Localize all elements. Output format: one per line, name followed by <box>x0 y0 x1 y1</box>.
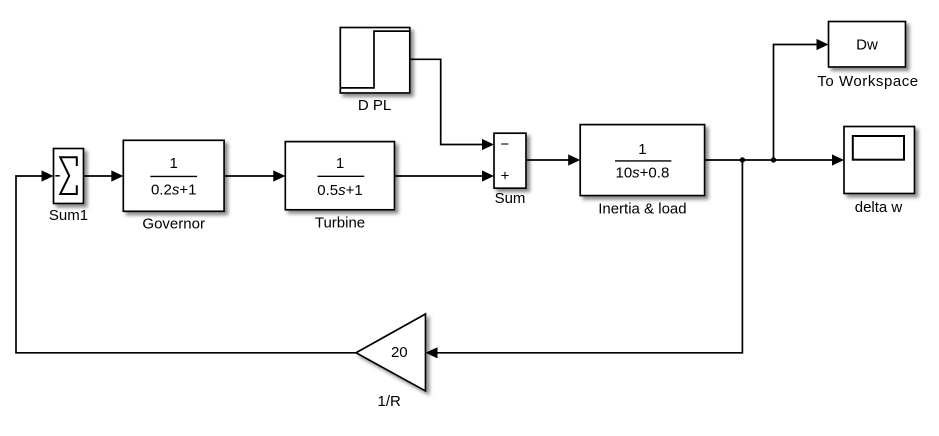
svg-text:Dw: Dw <box>856 37 878 54</box>
fraction bar <box>615 160 671 162</box>
arrowhead into Turbine <box>273 170 285 181</box>
wire branch down to gain input <box>437 160 743 353</box>
arrowhead into Governor <box>111 170 123 181</box>
svg-text:delta w: delta w <box>855 199 903 216</box>
junction node at workspace branch <box>771 157 776 162</box>
svg-text:20: 20 <box>391 344 408 361</box>
svg-text:0.5s+1: 0.5s+1 <box>317 182 362 199</box>
wire branch up to To Workspace <box>774 45 818 161</box>
svg-text:+: + <box>501 168 510 185</box>
wire D PL to Sum minus input <box>410 59 483 144</box>
gain triangle 1/R <box>356 314 426 410</box>
wire Governor to Turbine <box>224 175 274 177</box>
svg-text:To Workspace: To Workspace <box>817 73 918 90</box>
svg-text:1: 1 <box>638 141 646 158</box>
block Sum1 <box>49 149 88 225</box>
wire Sum1 to Governor <box>84 175 113 177</box>
step waveform icon <box>341 31 409 88</box>
wire Turbine to Sum plus input <box>395 175 484 177</box>
block Governor <box>123 140 224 232</box>
svg-text:10s+0.8: 10s+0.8 <box>615 165 669 182</box>
fraction bar <box>150 175 197 177</box>
block Turbine <box>285 142 394 232</box>
svg-text:Sum: Sum <box>495 190 526 207</box>
svg-text:1: 1 <box>170 155 178 172</box>
block To Workspace <box>817 22 918 91</box>
svg-text:0.2s+1: 0.2s+1 <box>151 182 196 199</box>
svg-text:1: 1 <box>336 155 344 172</box>
svg-text:Sum1: Sum1 <box>49 207 88 224</box>
arrowhead into Sum minus <box>482 139 494 150</box>
wire Inertia & load output to Scope <box>705 159 833 161</box>
junction node at scope branch <box>740 157 745 162</box>
svg-text:Inertia & load: Inertia & load <box>598 200 686 217</box>
svg-text:D PL: D PL <box>358 97 391 114</box>
wire feedback from gain output to Sum1 input <box>16 176 356 353</box>
block D PL step source <box>340 28 410 115</box>
arrowhead into gain (pointing left) <box>426 347 438 358</box>
sigma symbol of Sum1 <box>60 157 77 194</box>
svg-text:Governor: Governor <box>142 216 205 233</box>
wire Sum to Inertia & load <box>526 159 569 161</box>
svg-text:Turbine: Turbine <box>315 215 365 232</box>
arrowhead into Scope <box>832 154 844 165</box>
minus sign at Sum1 input <box>55 175 59 177</box>
block Sum <box>494 133 526 207</box>
block Inertia & load <box>580 125 704 218</box>
svg-text:1/R: 1/R <box>378 393 402 410</box>
fraction bar <box>318 175 365 177</box>
block Scope delta w <box>844 127 915 217</box>
scope screen <box>853 136 904 160</box>
arrowhead into Sum plus <box>482 170 494 181</box>
arrowhead into Sum1 <box>42 170 54 181</box>
arrowhead into To Workspace <box>817 39 829 50</box>
arrowhead into Inertia & load <box>568 154 580 165</box>
svg-text:−: − <box>500 136 509 153</box>
